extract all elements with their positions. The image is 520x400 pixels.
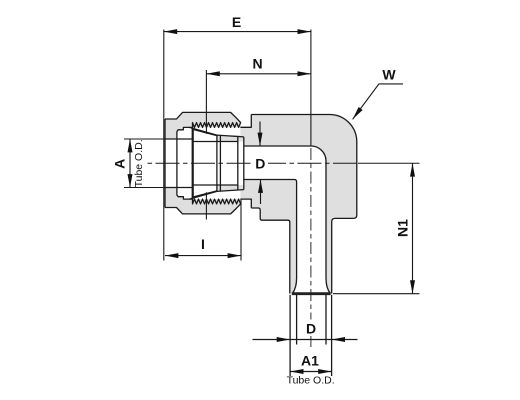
svg-text:A: A (112, 159, 128, 169)
extension line N1 top (358, 162, 420, 164)
thick tube end line (292, 292, 331, 295)
front ferrule outer taper top (189, 127, 217, 135)
stub bore line right (D extension) (325, 295, 327, 345)
svg-text:E: E (232, 14, 241, 30)
thread root line + body hex face top (240, 115, 251, 128)
white back ferrule top (177, 127, 190, 139)
tube cavity wall bottom (body side) (193, 184, 238, 186)
thread root line + body hex face bottom (240, 199, 251, 208)
front ferrule inner taper top (193, 129, 217, 135)
tube stub right edge (331, 295, 333, 376)
tube cavity wall bottom (nut side) (165, 187, 193, 189)
nut outline top with threads (165, 112, 241, 139)
extension line A bottom (124, 187, 165, 189)
tube stop shoulder edge (237, 137, 239, 191)
front ferrule nose edge (216, 135, 218, 191)
dimension D bottom (253, 337, 358, 342)
extension line N left lower (205, 192, 207, 219)
svg-text:W: W (382, 67, 396, 83)
dimension A1 (290, 369, 332, 374)
tube stub left edge (289, 295, 291, 376)
extension line N left upper (205, 70, 207, 134)
body seat sliver bottom (217, 185, 244, 191)
extension line I right (thread end) (240, 200, 242, 261)
body (elbow) gray fill (189, 115, 356, 294)
body seat mouth edge (219, 135, 221, 191)
dimension D horizontal port (258, 122, 264, 205)
nut gray fill top (165, 112, 241, 139)
white front ferrule wedge bottom (189, 185, 217, 199)
dimension I (165, 253, 241, 258)
body seat line top (217, 135, 244, 137)
svg-text:I: I (201, 236, 205, 252)
nut gray fill bottom (165, 188, 241, 214)
front ferrule inner taper bottom (193, 191, 217, 197)
extension line E/I left (nut rear face) (163, 30, 165, 261)
leader W (353, 84, 403, 119)
extension line E/N right (port centerline) (310, 30, 312, 147)
svg-text:N1: N1 (395, 219, 411, 237)
body seat sliver top (217, 135, 244, 141)
dimension N (206, 71, 311, 76)
thick ferrule interface line (192, 128, 194, 199)
centerline vertical (310, 148, 312, 347)
stub bore line left (D extension) (296, 295, 298, 345)
svg-text:A1: A1 (301, 353, 319, 369)
centerline horizontal (148, 162, 359, 164)
svg-text:D: D (255, 155, 265, 171)
nut outline bottom with threads (165, 188, 241, 214)
dimension E (164, 29, 311, 34)
front ferrule outer taper bottom (189, 191, 217, 199)
white bore channel (D) through elbow (244, 146, 330, 294)
svg-text:N: N (252, 56, 262, 72)
body outline right (251, 115, 356, 294)
white back ferrule bottom (177, 188, 190, 200)
back ferrule face vertical (176, 139, 178, 188)
tube cavity wall top (nut side) (165, 138, 193, 140)
tube cavity wall top (body side) (193, 141, 238, 143)
body outline staircase bottom-left (251, 208, 289, 294)
extension line A top (124, 138, 165, 140)
bore top line + elbow arc + flare (244, 146, 330, 294)
extension line N1 bottom (333, 293, 420, 295)
white cavity (tube bore A) (165, 139, 244, 188)
svg-text:Tube O.D.: Tube O.D. (133, 139, 145, 187)
nut face (164, 119, 166, 208)
dimension N1 (410, 163, 415, 293)
svg-text:Tube O.D.: Tube O.D. (287, 375, 335, 387)
dimension A (128, 139, 133, 188)
body seat line bottom (217, 190, 244, 192)
white front ferrule wedge top (189, 127, 217, 141)
bore bottom line + inner corner + flare (244, 180, 297, 294)
counterbore shoulder edge (243, 137, 245, 190)
svg-text:D: D (306, 321, 316, 337)
